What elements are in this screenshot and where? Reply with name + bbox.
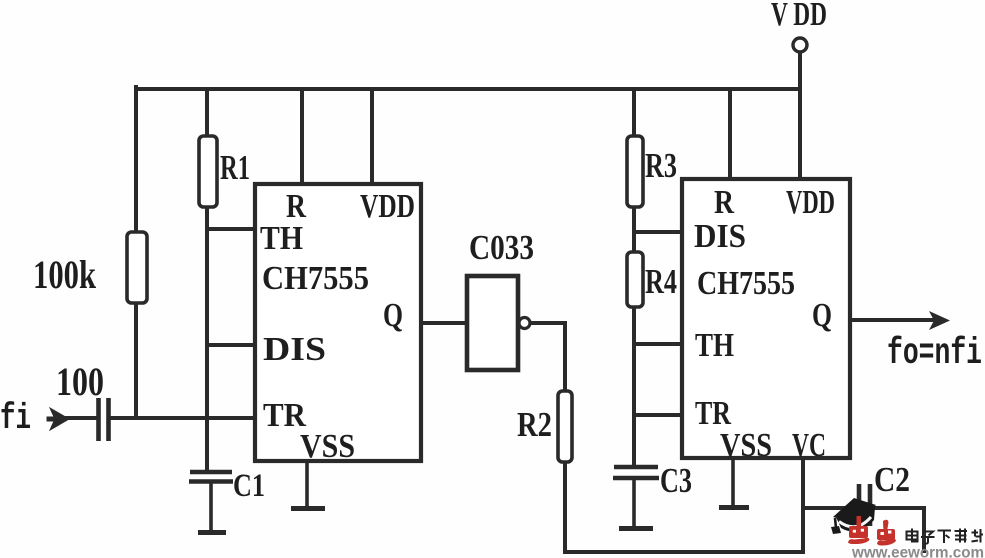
capacitor 100 input series — [99, 398, 109, 441]
ground C1 — [198, 530, 226, 535]
op-amp U3 C033 inverter — [467, 276, 530, 370]
svg-text:R3: R3 — [645, 146, 677, 185]
watermark url — [851, 545, 984, 558]
svg-text:R4: R4 — [645, 262, 677, 301]
svg-text:TH: TH — [260, 220, 303, 257]
svg-text:VDD: VDD — [360, 188, 415, 225]
wire VC to C2 — [803, 506, 924, 510]
value CH7555 U1 — [262, 260, 369, 297]
resistor R2 — [558, 391, 572, 462]
wire R1 branch — [205, 89, 209, 472]
svg-text:fo=nfi: fo=nfi — [887, 333, 982, 375]
wire VDD terminal to U2 — [798, 53, 802, 179]
wire C2 right down — [922, 508, 926, 551]
wire TH U2 — [634, 342, 682, 346]
watermark graduation cap — [831, 498, 876, 534]
pin VDD U1 — [360, 188, 415, 225]
label C2 — [874, 460, 910, 499]
label R3 — [645, 146, 677, 185]
wire VC branch — [801, 458, 805, 552]
wire TH U1 — [207, 227, 255, 231]
label C1 — [233, 468, 265, 504]
svg-text:DIS: DIS — [263, 331, 326, 368]
value CH7555 U2 — [697, 265, 795, 302]
capacitor C2 — [859, 484, 870, 526]
pin Q U2 — [812, 297, 832, 334]
svg-text:VSS: VSS — [720, 427, 772, 464]
wire Q U2 output — [850, 318, 934, 322]
label 100k — [33, 252, 97, 297]
pin TR U2 — [695, 395, 731, 432]
pin DIS U1 — [263, 331, 326, 368]
watermark site name characters — [907, 529, 984, 544]
svg-text:CH7555: CH7555 — [262, 260, 369, 297]
wire R pin U1 — [300, 89, 304, 184]
op-amp U1 CH7555 box — [255, 184, 421, 461]
svg-text:Q: Q — [812, 297, 832, 334]
svg-text:R2: R2 — [517, 405, 552, 444]
svg-text:VC: VC — [792, 427, 826, 464]
op-amp U2 CH7555 box — [682, 179, 850, 458]
ground C3 — [619, 526, 653, 531]
svg-text:R1: R1 — [220, 148, 250, 187]
pin TH U2 — [695, 327, 734, 364]
label V DD — [771, 0, 827, 33]
arrow fo output head — [929, 311, 950, 330]
svg-text:www.eeworm.com: www.eeworm.com — [851, 545, 984, 558]
wire DIS U2 — [634, 230, 682, 234]
svg-text:100k: 100k — [33, 252, 97, 297]
label C033 — [469, 228, 534, 267]
watermark chongchong red characters — [848, 516, 896, 546]
svg-text:V DD: V DD — [771, 0, 827, 33]
resistor R4 — [627, 252, 643, 307]
label R4 — [645, 262, 677, 301]
VDD terminal circle — [793, 38, 807, 52]
pin Q U1 — [383, 297, 403, 334]
label 100 — [56, 359, 104, 404]
svg-text:VDD: VDD — [786, 184, 835, 221]
wire R2 bottom — [563, 462, 567, 552]
svg-text:100: 100 — [56, 359, 104, 404]
wire top rail — [136, 87, 800, 91]
wire R pin U2 — [728, 89, 732, 179]
ground VSS U1 — [291, 461, 325, 509]
svg-text:VSS: VSS — [300, 428, 355, 465]
svg-text:Q: Q — [383, 297, 403, 334]
pin VSS U2 — [720, 427, 772, 464]
wire VDD pin U1 — [370, 89, 374, 184]
capacitor C1 — [189, 472, 233, 533]
svg-text:C033: C033 — [469, 228, 534, 267]
svg-text:TH: TH — [695, 327, 734, 364]
wire left branch 100k — [134, 87, 138, 418]
resistor 100k — [127, 232, 147, 303]
svg-text:DIS: DIS — [694, 218, 746, 255]
capacitor C3 — [613, 467, 659, 529]
pin TH U1 — [260, 220, 303, 257]
svg-text:fi: fi — [0, 398, 31, 439]
svg-text:CH7555: CH7555 — [697, 265, 795, 302]
wire fi input / TR U1 — [60, 416, 255, 420]
pin VDD U2 — [786, 184, 835, 221]
label R2 — [517, 405, 552, 444]
resistor R3 — [627, 136, 643, 207]
wire C033 output to R2 — [530, 323, 565, 391]
label fo=nfi — [887, 333, 982, 375]
pin R U2 — [714, 184, 734, 221]
wire Q U1 output — [421, 321, 467, 325]
wire DIS U1 — [207, 343, 255, 347]
svg-text:R: R — [714, 184, 734, 221]
resistor R1 — [199, 136, 217, 207]
svg-text:C2: C2 — [874, 460, 910, 499]
wire bottom rail — [565, 550, 803, 554]
svg-text:C1: C1 — [233, 468, 265, 504]
svg-text:C3: C3 — [660, 461, 692, 500]
label C3 — [660, 461, 692, 500]
label fi — [0, 398, 31, 439]
arrow fi input — [47, 408, 69, 430]
pin VC U2 — [792, 427, 826, 464]
wire TR U2 — [634, 413, 682, 417]
pin VSS U1 — [300, 428, 355, 465]
pin R U1 — [286, 188, 306, 225]
ground VSS U2 — [719, 458, 749, 508]
pin DIS U2 — [694, 218, 746, 255]
wire R3 R4 branch — [632, 89, 636, 467]
pin TR U1 — [263, 397, 306, 434]
label R1 — [220, 148, 250, 187]
